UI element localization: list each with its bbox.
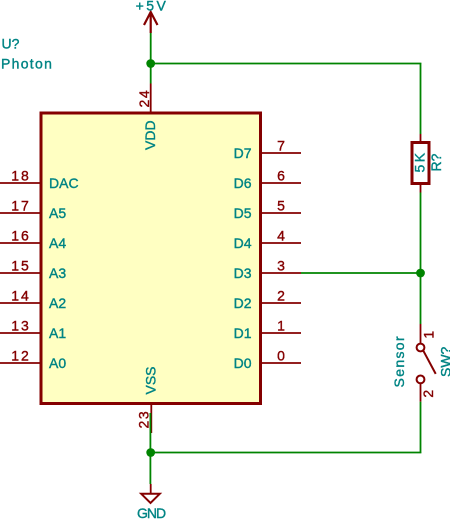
pin 18 DAC bbox=[0, 168, 79, 192]
pin 1 D1 bbox=[234, 318, 301, 342]
svg-text:13: 13 bbox=[11, 318, 31, 334]
svg-text:D6: D6 bbox=[234, 175, 252, 191]
svg-text:GND: GND bbox=[137, 505, 166, 519]
pin 0 D0 bbox=[234, 348, 301, 372]
pin 15 A3 bbox=[0, 258, 66, 282]
reference R? bbox=[428, 153, 444, 171]
junction GND net bbox=[146, 448, 155, 457]
pin 12 A0 bbox=[0, 348, 66, 372]
svg-text:Sensor: Sensor bbox=[391, 335, 407, 387]
pin 5 D5 bbox=[234, 198, 301, 222]
svg-text:D2: D2 bbox=[234, 295, 252, 311]
pin 7 D7 bbox=[234, 138, 301, 162]
svg-text:A0: A0 bbox=[49, 355, 66, 371]
value Sensor bbox=[391, 335, 407, 387]
reference SW? bbox=[437, 346, 450, 377]
pin 2 of SW? bbox=[420, 390, 436, 398]
svg-text:1: 1 bbox=[421, 331, 437, 339]
wire bottom horizontal bbox=[151, 451, 421, 454]
pin 23 VSS (bottom) bbox=[136, 366, 159, 433]
pin 24 VDD (top) bbox=[136, 84, 158, 151]
svg-text:D5: D5 bbox=[234, 205, 252, 221]
wire top horizontal to resistor bbox=[151, 63, 421, 66]
svg-text:D7: D7 bbox=[234, 145, 252, 161]
svg-text:0: 0 bbox=[277, 348, 285, 364]
svg-text:5K: 5K bbox=[412, 150, 428, 172]
svg-text:24: 24 bbox=[136, 89, 152, 108]
value 5K bbox=[412, 150, 428, 172]
svg-text:D1: D1 bbox=[234, 325, 252, 341]
svg-text:VSS: VSS bbox=[143, 366, 159, 394]
svg-text:DAC: DAC bbox=[49, 175, 79, 191]
svg-text:4: 4 bbox=[277, 228, 285, 244]
pin 17 A5 bbox=[0, 198, 66, 222]
wire right vertical down to resistor bbox=[420, 64, 422, 135]
junction D3 net bbox=[416, 269, 425, 278]
svg-text:1: 1 bbox=[277, 318, 285, 334]
svg-text:23: 23 bbox=[136, 410, 152, 429]
pin 2 D2 bbox=[234, 288, 301, 312]
wire resistor to junction D3 bbox=[420, 193, 422, 274]
pin 1 of SW? bbox=[421, 331, 437, 339]
pin 6 D6 bbox=[234, 168, 301, 192]
wire +5V to junction and pin 24 bbox=[150, 33, 152, 84]
value Photon bbox=[1, 55, 53, 71]
svg-text:18: 18 bbox=[11, 168, 31, 184]
pin 13 A1 bbox=[0, 318, 66, 342]
svg-text:SW?: SW? bbox=[437, 346, 450, 377]
svg-text:16: 16 bbox=[11, 228, 31, 244]
svg-text:A4: A4 bbox=[49, 235, 66, 251]
svg-text:+5V: +5V bbox=[136, 0, 169, 13]
switch SW? bbox=[417, 324, 436, 402]
svg-text:12: 12 bbox=[11, 348, 31, 364]
reference U? bbox=[2, 36, 20, 52]
svg-text:6: 6 bbox=[277, 168, 285, 184]
svg-text:Photon: Photon bbox=[1, 55, 53, 71]
svg-text:2: 2 bbox=[420, 390, 436, 398]
svg-text:R?: R? bbox=[428, 153, 444, 171]
svg-text:A1: A1 bbox=[49, 325, 66, 341]
svg-text:14: 14 bbox=[11, 288, 31, 304]
pin 14 A2 bbox=[0, 288, 66, 312]
svg-text:A3: A3 bbox=[49, 265, 66, 281]
svg-text:A2: A2 bbox=[49, 295, 66, 311]
svg-text:15: 15 bbox=[11, 258, 31, 274]
svg-text:A5: A5 bbox=[49, 205, 66, 221]
power symbol +5V bbox=[136, 0, 169, 33]
svg-text:3: 3 bbox=[277, 258, 285, 274]
svg-text:17: 17 bbox=[11, 198, 31, 214]
svg-text:D0: D0 bbox=[234, 355, 252, 371]
svg-text:D4: D4 bbox=[234, 235, 252, 251]
svg-text:2: 2 bbox=[277, 288, 285, 304]
svg-text:VDD: VDD bbox=[142, 120, 158, 150]
wire pin 23 to GND bbox=[149, 413, 151, 484]
pin 16 A4 bbox=[0, 228, 66, 252]
wire junction to switch bbox=[420, 273, 422, 324]
IC U? body bbox=[41, 113, 261, 404]
svg-text:7: 7 bbox=[277, 138, 285, 154]
wire D3 horizontal bbox=[301, 272, 421, 274]
pin 3 D3 bbox=[234, 258, 301, 282]
wire switch to bottom corner bbox=[420, 402, 422, 453]
resistor R? bbox=[412, 134, 429, 193]
ground bbox=[137, 484, 166, 519]
svg-text:5: 5 bbox=[277, 198, 285, 214]
junction top at VDD net bbox=[146, 59, 155, 68]
svg-text:U?: U? bbox=[2, 36, 20, 52]
pin 4 D4 bbox=[234, 228, 301, 252]
svg-text:D3: D3 bbox=[234, 265, 252, 281]
